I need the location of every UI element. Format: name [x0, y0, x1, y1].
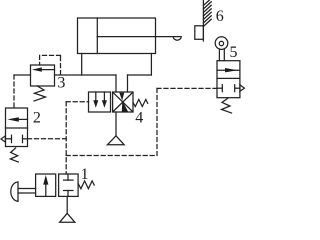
svg-text:1: 1 [81, 166, 89, 183]
svg-text:3: 3 [57, 74, 65, 91]
svg-text:5: 5 [230, 44, 238, 61]
svg-text:2: 2 [33, 109, 41, 126]
svg-text:6: 6 [216, 8, 224, 25]
svg-text:4: 4 [135, 109, 143, 126]
